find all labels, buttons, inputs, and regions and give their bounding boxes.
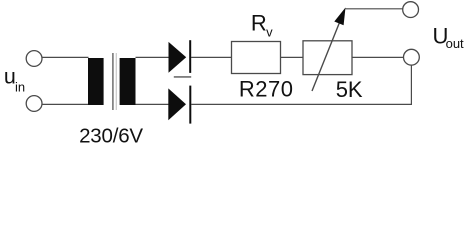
wire secondary bottom [136,103,170,105]
svg-text:out: out [446,36,464,51]
transformer core line left [112,53,114,110]
transformer T1 primary winding bar [88,58,104,105]
wire secondary top [136,56,170,58]
diode D1 triangle [169,42,187,73]
wire input top [42,56,89,58]
stray line under diode D1 [174,76,191,78]
terminal circle output bottom [404,49,420,65]
wire input bottom [42,103,88,105]
svg-text:R: R [251,11,267,36]
wire bottom rail [191,103,412,105]
label u_in [4,64,25,94]
resistor Rv box [232,42,281,74]
svg-text:230/6V: 230/6V [79,125,143,148]
svg-text:R270: R270 [239,77,294,102]
wire Rv to potentiometer [281,56,304,58]
diode D2 triangle [168,88,186,120]
wire D1 to Rv [191,56,232,58]
transformer core line right [115,53,117,110]
potentiometer P1 box [303,41,352,75]
svg-text:v: v [266,24,273,39]
potentiometer P1 wiper arrow shaft [312,21,340,91]
wire wiper to top terminal [346,8,403,10]
terminal circle input top [26,51,42,67]
label Rv [251,11,273,40]
label U_out [433,24,465,51]
diode D1 cathode bar [189,40,191,73]
diode D2 cathode bar [189,86,191,124]
potentiometer P1 wiper arrowhead [334,8,345,26]
wire output node down [410,65,412,105]
wire pot to output node [352,56,403,58]
transformer T1 secondary winding bar [120,58,136,105]
svg-text:in: in [15,80,25,95]
terminal circle input bottom [26,96,42,112]
svg-text:5K: 5K [336,77,363,102]
terminal circle output top [403,2,419,18]
